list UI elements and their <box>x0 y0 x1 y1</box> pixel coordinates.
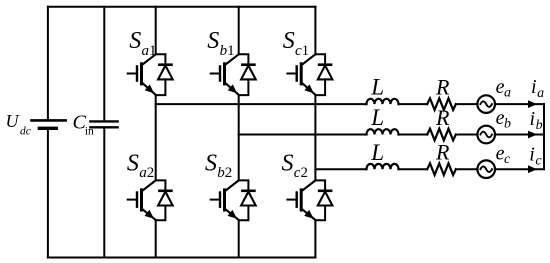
wire leg c middle <box>314 95 316 180</box>
wire right bus <box>543 104 545 169</box>
wire bottom DC rail <box>48 257 316 259</box>
inductor L phase b <box>367 129 399 134</box>
current arrow i_b <box>528 131 537 139</box>
wire top DC rail <box>48 6 316 8</box>
wire leg c lower <box>314 220 316 257</box>
transistor S_b2 (IGBT) <box>211 180 239 219</box>
wire R to source phase a <box>456 103 478 105</box>
wire leg b lower <box>238 220 240 257</box>
wire leg a middle <box>155 95 157 180</box>
wire leg c upper <box>314 7 316 55</box>
transistor S_a2 (IGBT) <box>128 180 156 219</box>
resistor R phase c <box>427 163 456 175</box>
resistor R phase b <box>427 129 456 141</box>
wire L to R phase c <box>399 168 428 170</box>
capacitor C_in <box>90 121 117 127</box>
wire leg a lower <box>155 220 157 257</box>
wire leg a upper <box>155 7 157 55</box>
diode D_c2 antiparallel <box>315 180 332 220</box>
svg-text:L: L <box>370 75 384 100</box>
wire R to source phase b <box>456 134 478 136</box>
svg-text:L: L <box>370 140 384 165</box>
wire C_in leg top <box>103 7 105 121</box>
resistor R phase a <box>427 98 456 110</box>
wire source to bus phase a <box>495 103 544 105</box>
wire phase a output <box>156 103 367 105</box>
diode D_b2 antiparallel <box>239 180 256 220</box>
svg-text:R: R <box>435 105 450 130</box>
wire R to source phase c <box>456 168 478 170</box>
AC source e_c <box>477 160 495 178</box>
svg-text:L: L <box>370 105 384 130</box>
battery U_dc <box>32 120 66 128</box>
transistor S_c1 (IGBT) <box>287 54 315 94</box>
inductor L phase c <box>367 164 399 169</box>
diode D_b1 antiparallel <box>239 54 256 95</box>
diode D_a1 antiparallel <box>156 54 173 95</box>
wire left edge bottom <box>47 130 49 257</box>
diode D_c1 antiparallel <box>315 54 332 95</box>
AC source e_a <box>477 95 495 113</box>
wire leg b upper <box>238 7 240 55</box>
wire source to bus phase b <box>495 134 544 136</box>
transistor S_c2 (IGBT) <box>287 180 315 219</box>
transistor S_a1 (IGBT) <box>128 54 156 94</box>
wire left edge top <box>47 7 49 119</box>
svg-text:R: R <box>435 140 450 165</box>
wire L to R phase a <box>399 103 428 105</box>
current arrow i_a <box>528 100 537 108</box>
wire source to bus phase c <box>495 168 544 170</box>
wire L to R phase b <box>399 134 428 136</box>
inductor L phase a <box>367 99 399 104</box>
wire phase c output <box>315 168 366 170</box>
current arrow i_c <box>528 165 537 173</box>
svg-text:R: R <box>435 75 450 100</box>
diode D_a2 antiparallel <box>156 180 173 220</box>
transistor S_b1 (IGBT) <box>211 54 239 94</box>
wire phase b output <box>239 134 367 136</box>
wire leg b middle <box>238 95 240 180</box>
wire C_in leg bottom <box>103 129 105 258</box>
AC source e_b <box>477 126 495 144</box>
